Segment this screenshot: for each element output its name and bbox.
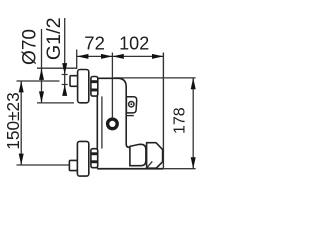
bottom flange: [77, 141, 88, 176]
body outline: [97, 78, 129, 168]
svg-text:178: 178: [171, 107, 188, 134]
dimension line 178: [191, 78, 196, 169]
spout mid block: [130, 144, 146, 165]
top union nut: [91, 77, 98, 97]
extension line 72 at wall face: [76, 50, 78, 70]
extension line top (body top to 178 dim): [114, 77, 196, 79]
label 150 plus-minus 23: [3, 92, 23, 150]
extension line diameter70 top: [37, 67, 76, 69]
dimension line 150 plus-minus 23: [19, 81, 24, 165]
extension line 150 top at inlet axis: [17, 80, 60, 82]
extension/center line at cartridge axis: [111, 53, 113, 118]
extension line 150 bottom at inlet axis: [17, 164, 70, 166]
extension line at spout front: [162, 53, 164, 169]
label diameter 70: [20, 29, 41, 65]
dimension line diameter 70: [39, 29, 44, 103]
bottom inlet spigot G1/2: [69, 160, 77, 170]
label 72: [84, 32, 105, 53]
svg-text:102: 102: [119, 33, 149, 53]
dimension line G1/2: [62, 18, 68, 96]
svg-text:72: 72: [84, 32, 105, 53]
tab shelf line: [126, 115, 134, 117]
bottom union nut: [91, 149, 98, 168]
top flange: [78, 70, 89, 103]
label G1/2: [43, 17, 65, 60]
svg-text:Ø70: Ø70: [20, 29, 41, 65]
inner housing line: [101, 96, 103, 148]
svg-text:150±23: 150±23: [3, 92, 23, 150]
body bottom edge / spout outlet baseline: [97, 168, 195, 170]
label 178: [171, 107, 188, 134]
dimension line 72/102: [77, 54, 163, 59]
mounting tab: [126, 97, 136, 113]
svg-text:G1/2: G1/2: [43, 17, 65, 60]
control knob: [106, 117, 119, 130]
extension line diameter70 bottom: [37, 102, 74, 104]
spout end cap: [147, 143, 163, 169]
tab hole: [129, 102, 134, 107]
top inlet spigot G1/2: [70, 76, 78, 87]
end cap facet line: [147, 161, 152, 167]
label 102: [119, 33, 149, 53]
